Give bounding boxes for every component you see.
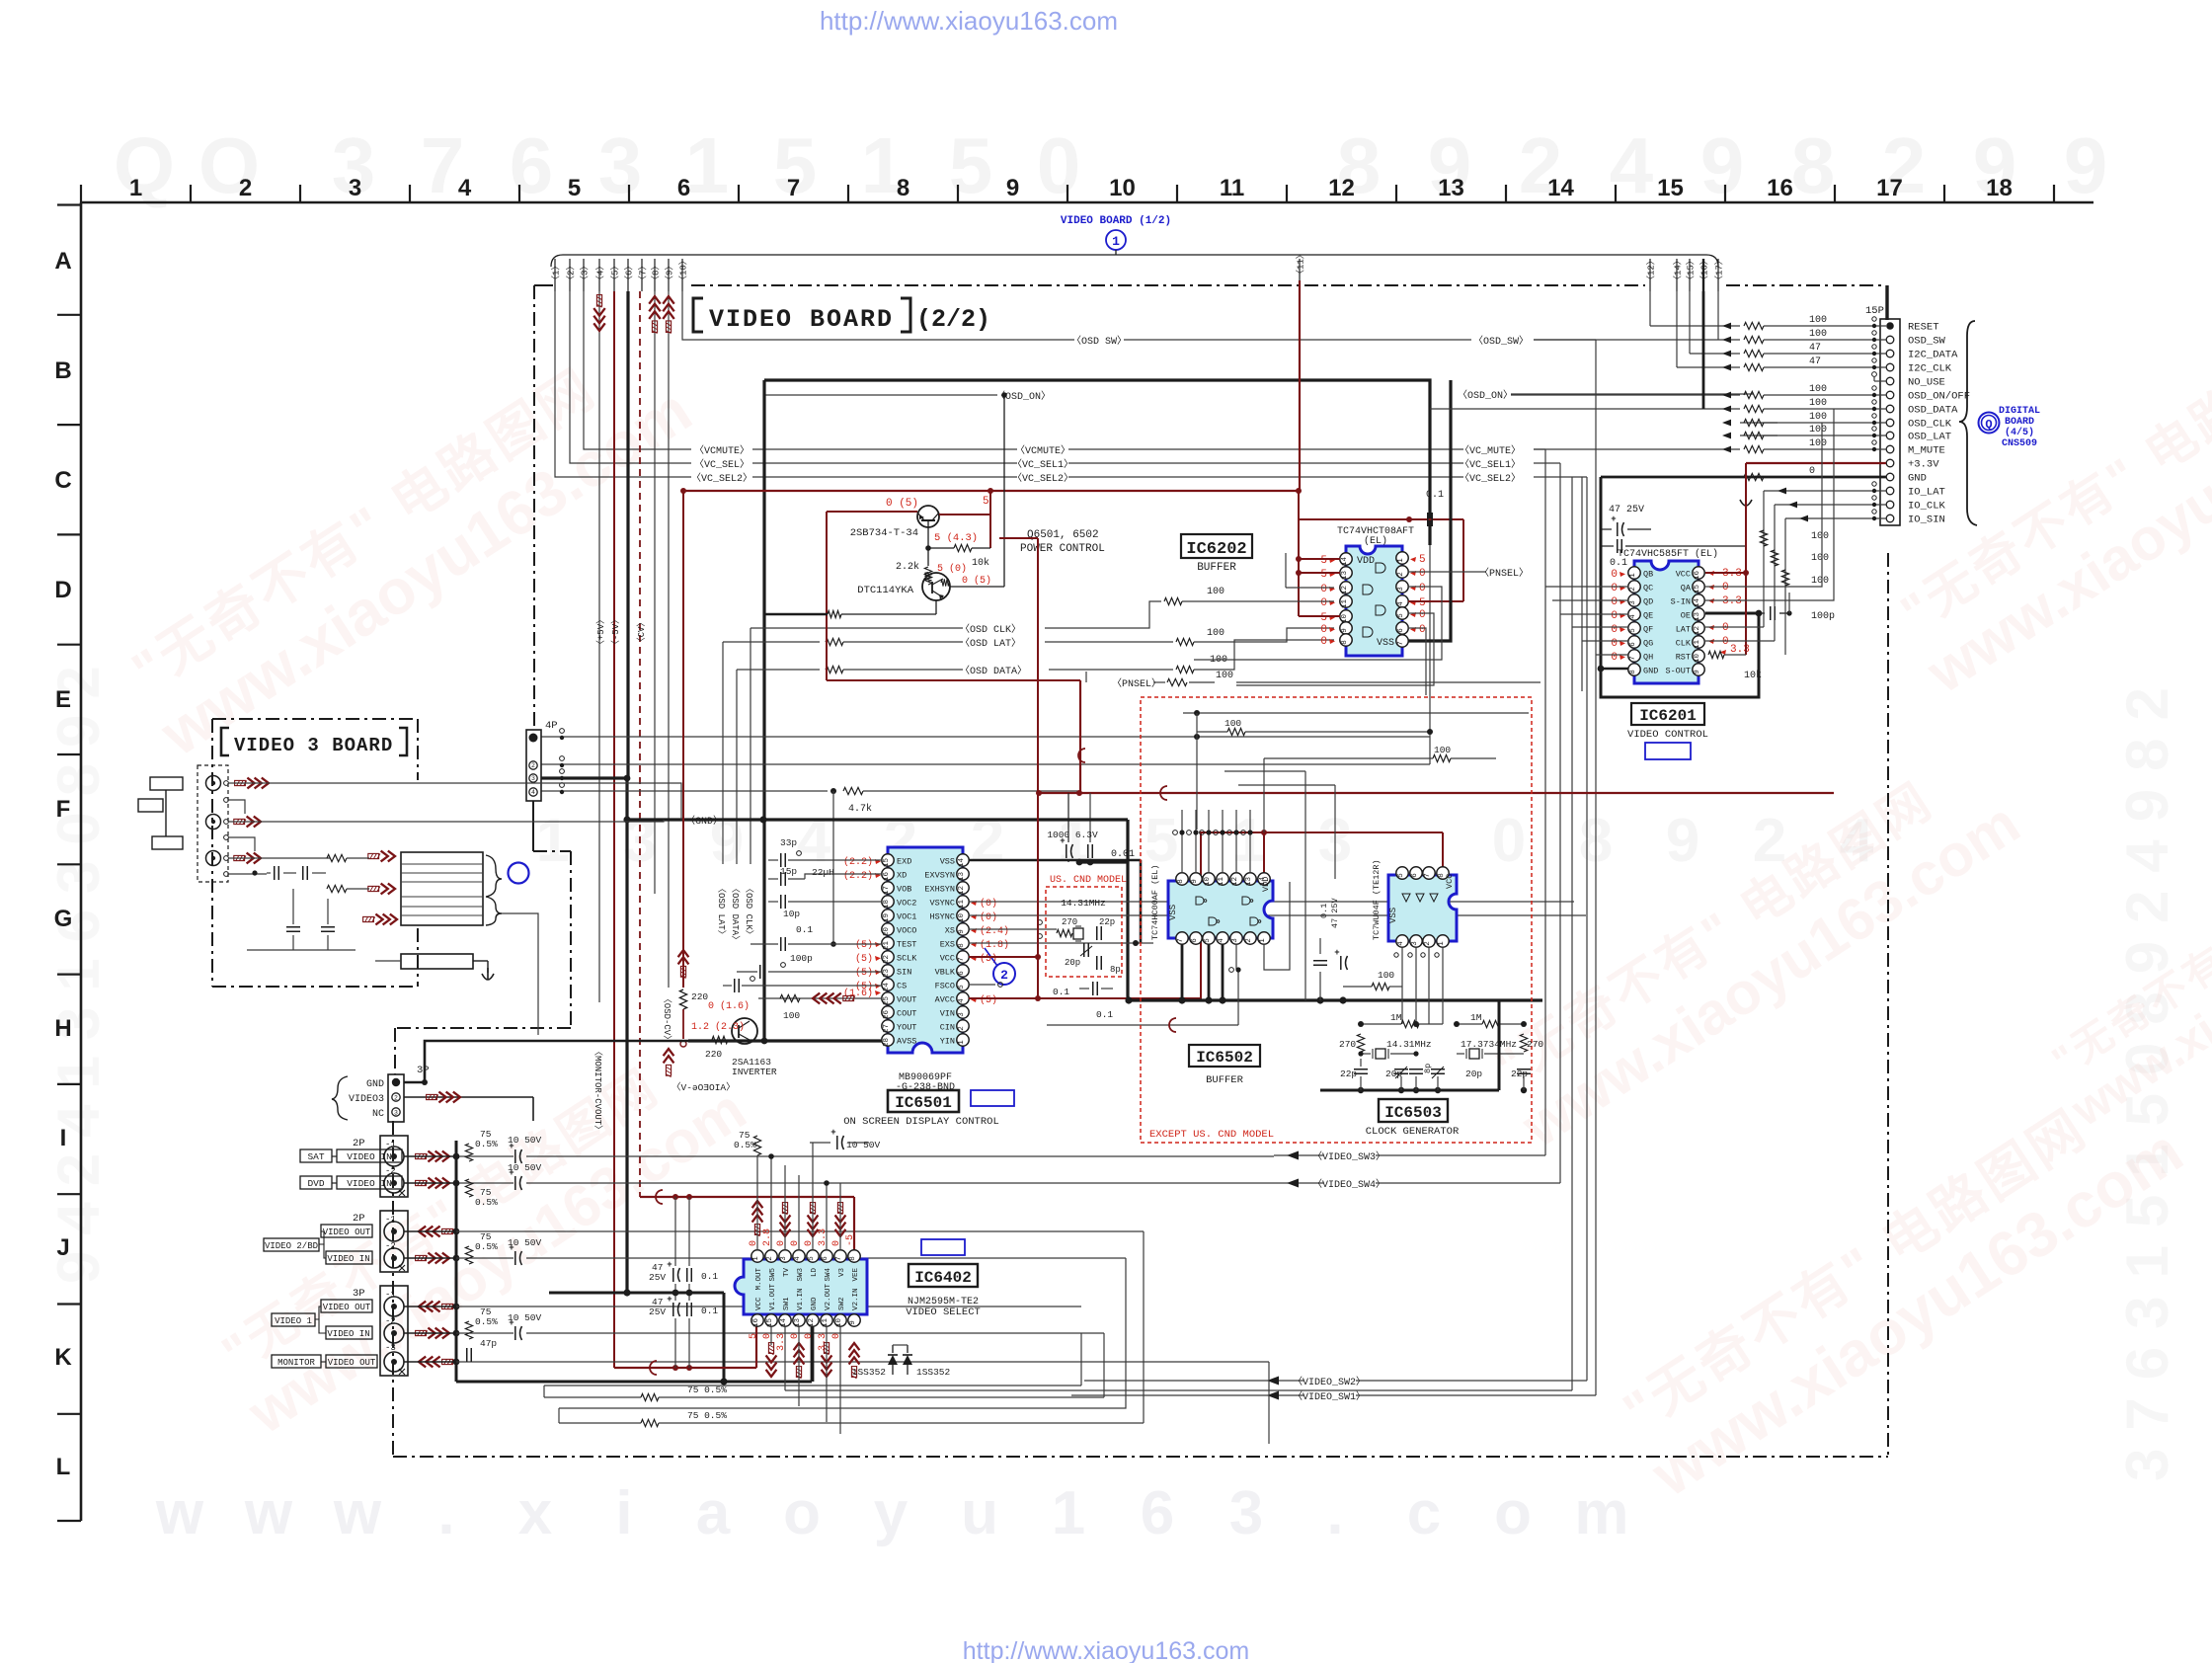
svg-text:0: 0 (1809, 466, 1815, 477)
wire pin2 VC_SEL (570, 291, 691, 463)
inductor block (401, 954, 473, 969)
svg-text:〈CV〉: 〈CV〉 (636, 618, 647, 647)
svg-text:0: 0 (1722, 636, 1729, 648)
svg-text:14: 14 (1694, 598, 1701, 608)
red bus upper 6402 (640, 1196, 854, 1198)
svg-text:(4/5): (4/5) (2005, 427, 2034, 438)
svg-text:3: 3 (1231, 938, 1239, 943)
svg-text:100: 100 (1434, 745, 1451, 755)
svg-text:SIN: SIN (897, 968, 911, 978)
svg-text:0: 0 (1320, 597, 1327, 609)
svg-text:2: 2 (958, 1026, 966, 1031)
svg-text:4: 4 (1629, 614, 1637, 619)
svg-text:VDD: VDD (1261, 877, 1271, 892)
svg-text:VIDEO OUT: VIDEO OUT (323, 1303, 371, 1312)
svg-text:3: 3 (1411, 941, 1419, 946)
IC U6202 pins left (1340, 553, 1352, 565)
svg-text:〈VC_SEL1〉: 〈VC_SEL1〉 (1460, 458, 1521, 471)
svg-text:o: o (1494, 1479, 1532, 1547)
svg-text:IC6501: IC6501 (895, 1094, 952, 1112)
IC U6501 body (888, 847, 963, 1053)
svg-text:0.5%: 0.5% (475, 1139, 498, 1149)
svg-text:100: 100 (783, 1010, 800, 1021)
svg-text:〈15〉: 〈15〉 (1686, 256, 1697, 284)
svg-text:OSD_LAT: OSD_LAT (1908, 432, 1951, 443)
svg-text:0 (5): 0 (5) (886, 498, 918, 510)
svg-text:+: + (509, 1243, 513, 1253)
wire pin5 red supply (613, 291, 615, 1368)
svg-text:100: 100 (1809, 315, 1827, 326)
svg-text:27: 27 (883, 1024, 891, 1033)
wire VC_SEL2 (752, 476, 1017, 478)
wire S-IN (1705, 409, 1834, 600)
svg-text:QE: QE (1643, 611, 1653, 621)
svg-text:1: 1 (1052, 1479, 1085, 1547)
svg-text:0: 0 (1419, 583, 1426, 594)
svg-text:8: 8 (958, 943, 966, 948)
EXCEPT US CND MODEL box (1141, 697, 1532, 1143)
svg-text:13: 13 (1245, 877, 1253, 887)
wire OSD CLK (750, 627, 963, 629)
svg-text:4: 4 (794, 1256, 802, 1261)
svg-text:DIGITAL: DIGITAL (1999, 406, 2040, 417)
svg-text:3: 3 (1629, 600, 1637, 605)
svg-text:5: 5 (1397, 613, 1405, 618)
wire QA up (1705, 423, 1822, 587)
wire OSD_ON left (764, 394, 997, 396)
svg-text:0: 0 (1722, 622, 1729, 634)
wire pin7 red dashed (639, 291, 641, 1197)
svg-text:1SS352: 1SS352 (852, 1367, 887, 1378)
svg-text:〈V-ǝOƎOIA〉: 〈V-ǝOƎOIA〉 (671, 1082, 736, 1093)
IC U6201 blue box (1645, 743, 1691, 759)
svg-text:(1.6): (1.6) (843, 988, 873, 999)
svg-text:+: + (509, 1142, 513, 1151)
svg-text:VCC: VCC (755, 1297, 763, 1310)
svg-text:4: 4 (958, 998, 966, 1003)
pink watermark bottom-left (203, 1025, 757, 1446)
wires IC6202 right outputs (1408, 571, 1486, 573)
svg-text:11: 11 (1341, 599, 1349, 609)
svg-text:3: 3 (598, 121, 643, 209)
delay line block (401, 852, 483, 925)
svg-text:26: 26 (883, 1010, 891, 1020)
svg-text:OSD_ON/OFF: OSD_ON/OFF (1908, 391, 1970, 403)
svg-text:V2.OUT: V2.OUT (825, 1283, 832, 1310)
svg-text:4: 4 (797, 807, 831, 875)
svg-text:0: 0 (1611, 583, 1618, 594)
svg-text:G: G (54, 906, 73, 932)
red wire Q6501 emitter loop (827, 511, 917, 513)
svg-text:0.5%: 0.5% (475, 1316, 498, 1327)
svg-text:F: F (56, 796, 71, 823)
board border top (534, 284, 553, 286)
svg-text:〈2〉: 〈2〉 (566, 262, 577, 284)
wire XS row (969, 928, 1057, 930)
IC U6202 label (1181, 534, 1252, 558)
connector jacks VIDEO1/MON (380, 1286, 408, 1376)
red bus mid (1039, 792, 1834, 794)
svg-text:8: 8 (1629, 670, 1637, 674)
wire OSD_SW right segment (1124, 339, 1471, 341)
svg-text:7: 7 (958, 957, 966, 962)
svg-text:5: 5 (1419, 554, 1426, 566)
svg-text:〈GND〉: 〈GND〉 (685, 815, 723, 828)
svg-text:-G-238-BND: -G-238-BND (896, 1082, 955, 1093)
svg-text:IC6202: IC6202 (1186, 540, 1246, 559)
svg-text:(2.2): (2.2) (843, 870, 873, 882)
svg-text:100: 100 (1811, 553, 1829, 564)
wire OSD LAT (723, 641, 820, 643)
red vertical 1051 (1037, 538, 1039, 998)
svg-text:5: 5 (949, 121, 993, 209)
svg-text:0: 0 (1611, 569, 1618, 581)
svg-text:6: 6 (1191, 938, 1199, 943)
svg-text:9: 9 (849, 1320, 857, 1325)
svg-text:y: y (874, 1479, 908, 1547)
svg-text:SCLK: SCLK (897, 954, 917, 964)
svg-text:15P: 15P (1865, 305, 1884, 317)
red wires IC6202 (1298, 491, 1300, 616)
svg-text:H: H (54, 1015, 71, 1042)
svg-text:B: B (54, 357, 71, 384)
vertical bus 462 (455, 1141, 458, 1382)
svg-text:18: 18 (1986, 175, 2013, 201)
svg-text:NO_USE: NO_USE (1908, 377, 1945, 389)
svg-text:0.5%: 0.5% (734, 1140, 756, 1150)
svg-text:IC6402: IC6402 (914, 1269, 972, 1287)
svg-text:L: L (56, 1454, 71, 1480)
svg-text:〈VCMUTE〉: 〈VCMUTE〉 (1015, 444, 1070, 457)
svg-text:VIDEO 1: VIDEO 1 (275, 1316, 312, 1326)
svg-text:47: 47 (1809, 356, 1821, 367)
svg-text:0: 0 (1611, 624, 1618, 636)
svg-text:17.3734MHz: 17.3734MHz (1461, 1039, 1517, 1050)
svg-text:3: 3 (1229, 1479, 1263, 1547)
svg-text:100: 100 (1378, 970, 1394, 981)
svg-text:IC6502: IC6502 (1196, 1049, 1253, 1067)
caps 1000 6.3V (1066, 844, 1067, 858)
thick gnd bus row (627, 818, 1128, 821)
svg-text:9: 9 (1341, 628, 1349, 633)
svg-text:10: 10 (1109, 175, 1136, 201)
svg-text:〈VIDEO_SW1〉: 〈VIDEO_SW1〉 (1293, 1390, 1366, 1403)
net VIDEO_SW2 (1084, 1380, 1303, 1382)
svg-text:1.2 (2.3): 1.2 (2.3) (691, 1021, 745, 1033)
svg-text:3: 3 (394, 1110, 398, 1117)
svg-text:SAT: SAT (307, 1151, 324, 1162)
svg-text:CNS509: CNS509 (2002, 438, 2037, 449)
wire OSD_ON right (1511, 393, 1753, 395)
svg-text:VSS: VSS (1388, 908, 1398, 923)
svg-text:〈OSD LAT〉: 〈OSD LAT〉 (960, 637, 1021, 650)
wires 6402 horizontals right (785, 1164, 1543, 1166)
svg-text:7: 7 (835, 1256, 843, 1261)
svg-text:2: 2 (1397, 572, 1405, 577)
svg-text:V2.IN: V2.IN (852, 1288, 860, 1310)
svg-text:12: 12 (1328, 175, 1355, 201)
inverter transistor 2SA1163 (732, 1018, 757, 1044)
svg-text:+: + (667, 1295, 671, 1305)
wire pin1 loop (1264, 882, 1290, 970)
watermark url bottom large (155, 1479, 1629, 1547)
IC U6501 label (888, 1090, 959, 1112)
svg-text:12: 12 (1231, 877, 1239, 886)
svg-text:GND: GND (811, 1297, 819, 1310)
svg-text:9: 9 (1700, 121, 1745, 209)
IC U6502 body (1168, 881, 1273, 938)
net VIDEO_SW1 (1071, 1394, 1303, 1396)
ruler row ticks (57, 203, 81, 205)
svg-text:〈OSD_ON〉: 〈OSD_ON〉 (1458, 389, 1513, 402)
svg-text:14: 14 (1341, 557, 1349, 567)
svg-text:0: 0 (1419, 568, 1426, 580)
svg-text:19: 19 (883, 913, 891, 922)
svg-text:270: 270 (1527, 1039, 1543, 1050)
svg-text:2: 2 (1629, 587, 1637, 592)
svg-text:0: 0 (1419, 609, 1426, 621)
svg-text:2P: 2P (353, 1138, 365, 1149)
pink watermark right (1882, 284, 2212, 705)
svg-text:〈+5V〉: 〈+5V〉 (595, 615, 606, 649)
IC U6202 pins right (1396, 552, 1408, 564)
svg-text:0: 0 (1320, 636, 1327, 648)
IC U6202 gates (1363, 585, 1373, 594)
svg-text:47p: 47p (480, 1338, 497, 1349)
svg-text:A: A (54, 248, 71, 275)
wires IC6201 right verticals (1763, 528, 1765, 627)
connector pins 11-17 (1299, 259, 1301, 280)
svg-text:0: 0 (1722, 582, 1729, 594)
digital board brace (1959, 321, 1977, 525)
red power bus C row (682, 490, 1300, 492)
wire 3P video3 (404, 1096, 533, 1098)
svg-text:100: 100 (1809, 412, 1827, 423)
IC U6201 label (1631, 703, 1704, 725)
svg-text:1: 1 (1259, 938, 1267, 943)
wires right of 6501 (969, 859, 1141, 862)
svg-text:5: 5 (983, 496, 989, 508)
svg-text:IO_LAT: IO_LAT (1908, 487, 1945, 499)
svg-text:VIDEO IN: VIDEO IN (347, 1178, 392, 1189)
svg-text:(2/2): (2/2) (916, 305, 990, 334)
svg-text:w: w (333, 1479, 382, 1547)
svg-text:47: 47 (1809, 343, 1821, 354)
svg-text:11: 11 (1220, 175, 1244, 201)
svg-text:14.31MHz: 14.31MHz (1061, 898, 1106, 909)
svg-text:9: 9 (1666, 807, 1699, 875)
svg-text:〈VC_SEL2〉: 〈VC_SEL2〉 (1460, 472, 1521, 485)
wire VC_MUTE right (1068, 448, 1463, 450)
svg-text:(0): (0) (980, 898, 997, 910)
wires jack row continue (526, 1155, 1274, 1157)
arrows video3 (262, 778, 269, 789)
svg-text:3P: 3P (353, 1288, 365, 1300)
svg-text:EXHSYN: EXHSYN (924, 885, 955, 895)
svg-text:http://www.xiaoyu163.com: http://www.xiaoyu163.com (963, 1637, 1249, 1663)
svg-text:270: 270 (1339, 1039, 1356, 1050)
wires video3 jacks (228, 783, 681, 820)
svg-text:V1.OUT: V1.OUT (769, 1283, 777, 1310)
svg-text:25V: 25V (649, 1307, 666, 1317)
svg-text:13: 13 (794, 1318, 802, 1328)
svg-text:3P: 3P (417, 1065, 430, 1076)
board border right (1887, 553, 1889, 1457)
wire thick gnd mid2 (1129, 998, 1542, 1001)
cap OE 100p (1770, 606, 1772, 620)
wire VCMUTE (752, 448, 1017, 450)
wire pin6 thick (626, 291, 629, 778)
svg-text:VIDEO IN: VIDEO IN (327, 1329, 369, 1339)
wire video3 up (424, 1041, 426, 1082)
svg-text:100: 100 (1216, 671, 1233, 681)
svg-text:EXS: EXS (940, 940, 955, 950)
svg-text:14: 14 (1547, 175, 1574, 201)
svg-text:〈12〉: 〈12〉 (1646, 256, 1657, 284)
svg-text:12: 12 (958, 886, 966, 895)
svg-text:+: + (667, 1260, 671, 1270)
svg-text:9: 9 (1694, 670, 1701, 674)
svg-text:15: 15 (883, 858, 891, 868)
svg-text:75 0.5%: 75 0.5% (687, 1385, 727, 1395)
thick gnd bus bottom (456, 1381, 812, 1384)
svg-text:FSCO: FSCO (935, 982, 955, 991)
jack dashed box (197, 765, 228, 882)
svg-text:6: 6 (510, 121, 554, 209)
svg-text:100: 100 (1809, 438, 1827, 449)
rca jack video3-3 (206, 851, 221, 866)
svg-text:Q: Q (114, 121, 175, 209)
red vertical pnsel (1079, 680, 1081, 793)
svg-text:75 0.5%: 75 0.5% (687, 1410, 727, 1421)
svg-text:5: 5 (749, 1333, 759, 1339)
svg-text:〈OSD CLK〉: 〈OSD CLK〉 (744, 884, 754, 939)
svg-text:HSYNC: HSYNC (929, 912, 955, 922)
arrow left VOUT (813, 993, 820, 1004)
svg-text:6: 6 (1411, 873, 1419, 878)
wire OSD DATA (737, 669, 820, 671)
svg-text:13: 13 (1438, 175, 1464, 201)
svg-text:C: C (54, 467, 71, 494)
svg-text:w: w (244, 1479, 293, 1547)
svg-text:(1.8): (1.8) (980, 939, 1009, 951)
svg-text:5: 5 (1145, 807, 1178, 875)
svg-text:VOB: VOB (897, 885, 911, 895)
red bus lower 6402 (614, 1367, 756, 1369)
labels SAT VIDEO IN (300, 1149, 332, 1162)
svg-text:XD: XD (897, 871, 907, 881)
svg-text:〈OSD LAT〉: 〈OSD LAT〉 (716, 884, 727, 939)
IC U6402 body (735, 1259, 867, 1314)
connector CN 15P box (1880, 319, 1900, 525)
blue net circle (509, 863, 529, 884)
svg-text:2: 2 (239, 175, 252, 201)
svg-text:〈16〉: 〈16〉 (1699, 256, 1710, 284)
svg-text:OE: OE (1681, 611, 1691, 621)
svg-text:〈OSD DATA〉: 〈OSD DATA〉 (730, 884, 741, 944)
board border left (533, 285, 535, 730)
bottom loop wires (543, 1386, 545, 1397)
svg-text:J: J (56, 1234, 69, 1261)
wire VOUT line (758, 997, 882, 999)
svg-text:VSS: VSS (940, 857, 955, 867)
svg-text:24: 24 (883, 983, 891, 992)
wire pin3 VCMUTE (584, 291, 691, 449)
svg-text:0.1: 0.1 (1053, 987, 1069, 997)
svg-text:17: 17 (883, 886, 891, 895)
svg-text:o: o (783, 1479, 821, 1547)
svg-text:CLOCK GENERATOR: CLOCK GENERATOR (1366, 1126, 1460, 1138)
svg-text:4: 4 (531, 789, 535, 796)
svg-text:EXVSYN: EXVSYN (924, 871, 955, 881)
wires right labels to bus (1534, 448, 1545, 450)
wire Q6501 base (927, 527, 929, 566)
svg-text:13: 13 (1341, 571, 1349, 581)
IC U6201 pins (1628, 567, 1640, 579)
svg-text:ON SCREEN DISPLAY CONTROL: ON SCREEN DISPLAY CONTROL (843, 1116, 999, 1128)
svg-text:〈VC_SEL〉: 〈VC_SEL〉 (694, 458, 750, 471)
svg-text:11: 11 (958, 900, 966, 910)
svg-text:18: 18 (883, 900, 891, 909)
ruler column ticks (80, 185, 82, 202)
video3 board title (221, 728, 407, 755)
wires IC6202 left inputs (1164, 597, 1182, 604)
svg-text:XS: XS (945, 926, 955, 936)
wire 3P gnd (404, 1041, 688, 1082)
svg-text:1: 1 (1438, 941, 1446, 946)
svg-text:8: 8 (1791, 121, 1836, 209)
svg-text:〈9〉: 〈9〉 (665, 262, 675, 284)
svg-text:〈VC_SEL2〉: 〈VC_SEL2〉 (1012, 472, 1073, 485)
IC U6402 label (908, 1264, 978, 1287)
svg-text:5: 5 (1320, 612, 1327, 624)
diodes 1SS352 (892, 1345, 894, 1353)
svg-text:I2C_CLK: I2C_CLK (1908, 363, 1952, 375)
svg-text:23: 23 (883, 969, 891, 979)
svg-text:8p: 8p (1110, 965, 1121, 975)
svg-text:〈OSD SW〉: 〈OSD SW〉 (1071, 335, 1127, 348)
svg-text:9424131630892: 9424131630892 (45, 650, 112, 1284)
svg-text:2: 2 (1245, 938, 1253, 943)
svg-text:0: 0 (1611, 638, 1618, 650)
svg-text:3.3: 3.3 (1722, 595, 1742, 607)
wire VC_SEL1 right (1068, 462, 1463, 464)
wire pin1 VC_SEL2 (555, 291, 691, 477)
wire DTC emitter (935, 600, 937, 614)
svg-text:1: 1 (1629, 573, 1637, 578)
svg-text:14: 14 (958, 858, 966, 868)
svg-text:V1.IN: V1.IN (797, 1288, 805, 1310)
svg-text:13: 13 (958, 872, 966, 882)
connector CN 15P pins (1886, 322, 1894, 330)
red vertical pin11 (1299, 280, 1301, 491)
IC U6502 label (1189, 1045, 1260, 1067)
svg-text:VDD: VDD (1357, 556, 1375, 567)
svg-text:0.5%: 0.5% (475, 1197, 498, 1208)
svg-text:RST: RST (1676, 653, 1691, 663)
svg-text:8: 8 (1341, 640, 1349, 645)
svg-text:VEE: VEE (852, 1268, 860, 1282)
svg-text:〈14〉: 〈14〉 (1673, 256, 1684, 284)
svg-text:5: 5 (1397, 873, 1405, 878)
wires 6402 top pins up (770, 1156, 772, 1250)
svg-text:M.OUT: M.OUT (755, 1268, 763, 1291)
svg-text:SW5: SW5 (769, 1268, 777, 1282)
ref Q digital board (1979, 413, 2000, 434)
svg-text:OSD_SW: OSD_SW (1908, 336, 1946, 348)
wire connector stub thick (1885, 285, 1888, 320)
svg-text:POWER CONTROL: POWER CONTROL (1020, 543, 1105, 555)
